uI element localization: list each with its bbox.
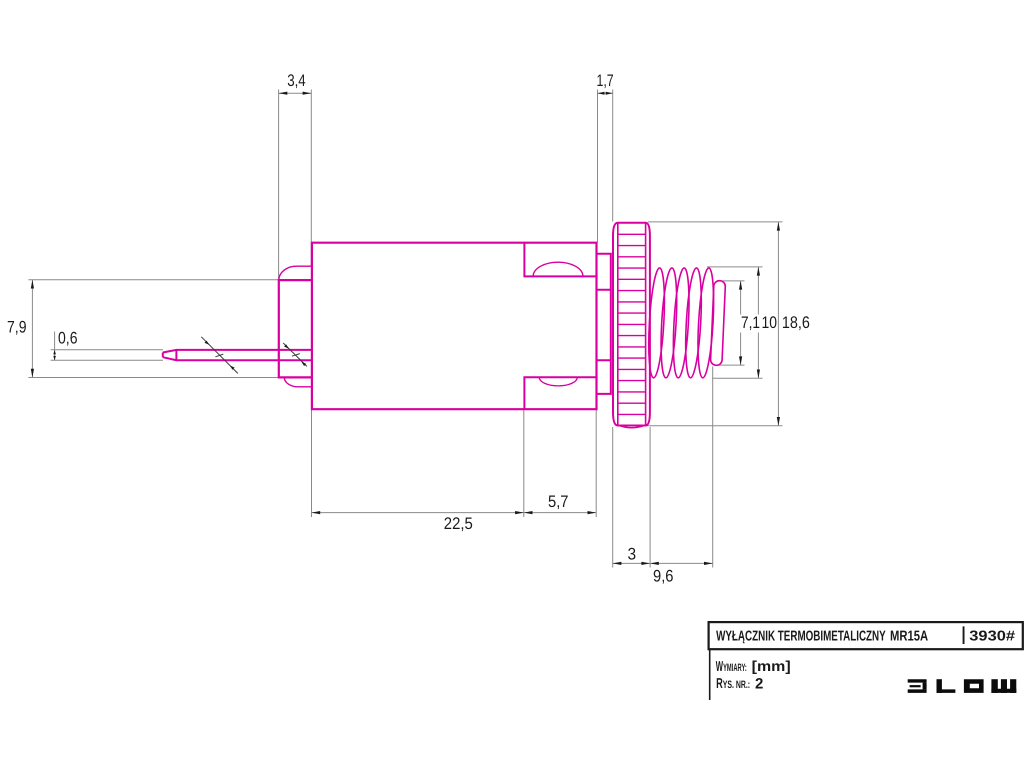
flange top snap bump: [279, 266, 312, 280]
pin projection lines: [51, 350, 163, 360]
svg-text:WYŁĄCZNIK TERMOBIMETALICZNY: WYŁĄCZNIK TERMOBIMETALICZNY: [716, 629, 886, 645]
arrows 0,6: [53, 350, 56, 355]
arrows 3,4: [279, 92, 288, 95]
dim 1,7 dimension line: [598, 92, 613, 94]
arrows 9,6: [650, 562, 659, 565]
svg-text:9,6: 9,6: [653, 567, 674, 586]
title box border: [709, 622, 1023, 649]
break mark 2 lower arrowhead: [301, 362, 306, 366]
BLOW logo letter W: [991, 679, 1016, 693]
main body rectangle: [312, 243, 597, 410]
flange bottom snap bump: [284, 377, 312, 386]
svg-text:3,4: 3,4: [287, 71, 306, 90]
arrows 3: [613, 562, 622, 565]
svg-text:[mm]: [mm]: [752, 659, 791, 675]
svg-text:3: 3: [628, 545, 637, 564]
arrows 1,7: [598, 92, 605, 95]
bottom notch bump arc: [539, 377, 577, 386]
top-right notch: [524, 243, 596, 277]
knurled nut outline: [613, 223, 650, 426]
svg-text:0,6: 0,6: [58, 329, 78, 348]
break mark 2 diagonal: [283, 343, 307, 366]
svg-text:7,1: 7,1: [741, 313, 760, 332]
BLOW logo letter O: [964, 679, 984, 693]
svg-text:7,9: 7,9: [7, 317, 27, 336]
arrows 7,1: [739, 281, 742, 290]
dim 3 / 9,6 extension lines: [613, 367, 713, 568]
divider bar: [963, 626, 965, 644]
arrows 5,7: [524, 511, 533, 514]
thread coil 1: [646, 268, 725, 379]
svg-text:22,5: 22,5: [444, 514, 473, 533]
break mark 2 tick: [292, 354, 300, 357]
svg-text:3930#: 3930#: [969, 629, 1015, 645]
arrows 18,6: [777, 222, 780, 231]
svg-text:5,7: 5,7: [548, 492, 569, 511]
svg-text:RYS. NR.:: RYS. NR.:: [716, 676, 750, 692]
dim 1,7 extension lines: [598, 90, 613, 243]
svg-text:WYMIARY:: WYMIARY:: [716, 659, 747, 675]
dim 10 dimension line: [757, 267, 759, 378]
thread end cap: [710, 280, 725, 365]
dim 7,1 extension lines: [716, 281, 745, 365]
svg-text:2: 2: [755, 675, 763, 692]
svg-text:MR15A: MR15A: [890, 629, 929, 645]
svg-text:10: 10: [762, 313, 778, 332]
dim 7,1 dimension line: [740, 281, 742, 365]
terminal pin: [163, 350, 312, 360]
bottom-right notch: [524, 377, 596, 409]
svg-text:1,7: 1,7: [597, 71, 614, 90]
BLOW logo letter B: [908, 679, 927, 693]
arrows 22,5: [312, 511, 321, 514]
dim 18,6 extension lines: [640, 222, 783, 426]
dim 7,9 extension lines: [28, 280, 278, 378]
svg-text:18,6: 18,6: [782, 313, 810, 332]
knurl face edges: [618, 223, 646, 426]
nut bottom arc: [620, 426, 645, 428]
dim 18,6 dimension line: [777, 222, 779, 426]
thread coil 3: [671, 268, 692, 379]
arrows 10: [757, 267, 760, 276]
top notch bump arc: [533, 262, 583, 276]
dim 0,6 leader line: [54, 332, 56, 361]
break mark 2 upper arrowhead: [284, 344, 289, 348]
BLOW logo letter L: [937, 679, 956, 693]
thread coil 2: [659, 268, 680, 379]
dim 22,5 / 5,7 extension lines: [312, 410, 597, 517]
dim 7,9 dimension line: [31, 280, 33, 378]
break mark 1 tick: [215, 354, 223, 357]
dim 22,5 / 5,7 dimension line: [312, 512, 597, 514]
bushing collar (1,7): [597, 254, 611, 394]
dim 10 extension lines: [707, 267, 763, 378]
break mark 1 diagonal: [201, 337, 238, 374]
dim 3,4 extension lines: [279, 90, 312, 280]
break mark 1 lower arrowhead: [230, 365, 235, 369]
label 7,1 white halo: [740, 315, 778, 333]
knurl ribs: [618, 234, 646, 414]
thread coil 4: [683, 268, 704, 379]
title block left border: [709, 649, 711, 700]
dim 3 / 9,6 dimension line: [613, 562, 713, 564]
arrows 7,9: [31, 280, 34, 289]
break mark 1 upper arrowhead: [205, 341, 210, 345]
thread coil 5: [696, 268, 717, 379]
left mounting flange: [279, 280, 312, 377]
dim 3,4 dimension line: [279, 92, 312, 94]
